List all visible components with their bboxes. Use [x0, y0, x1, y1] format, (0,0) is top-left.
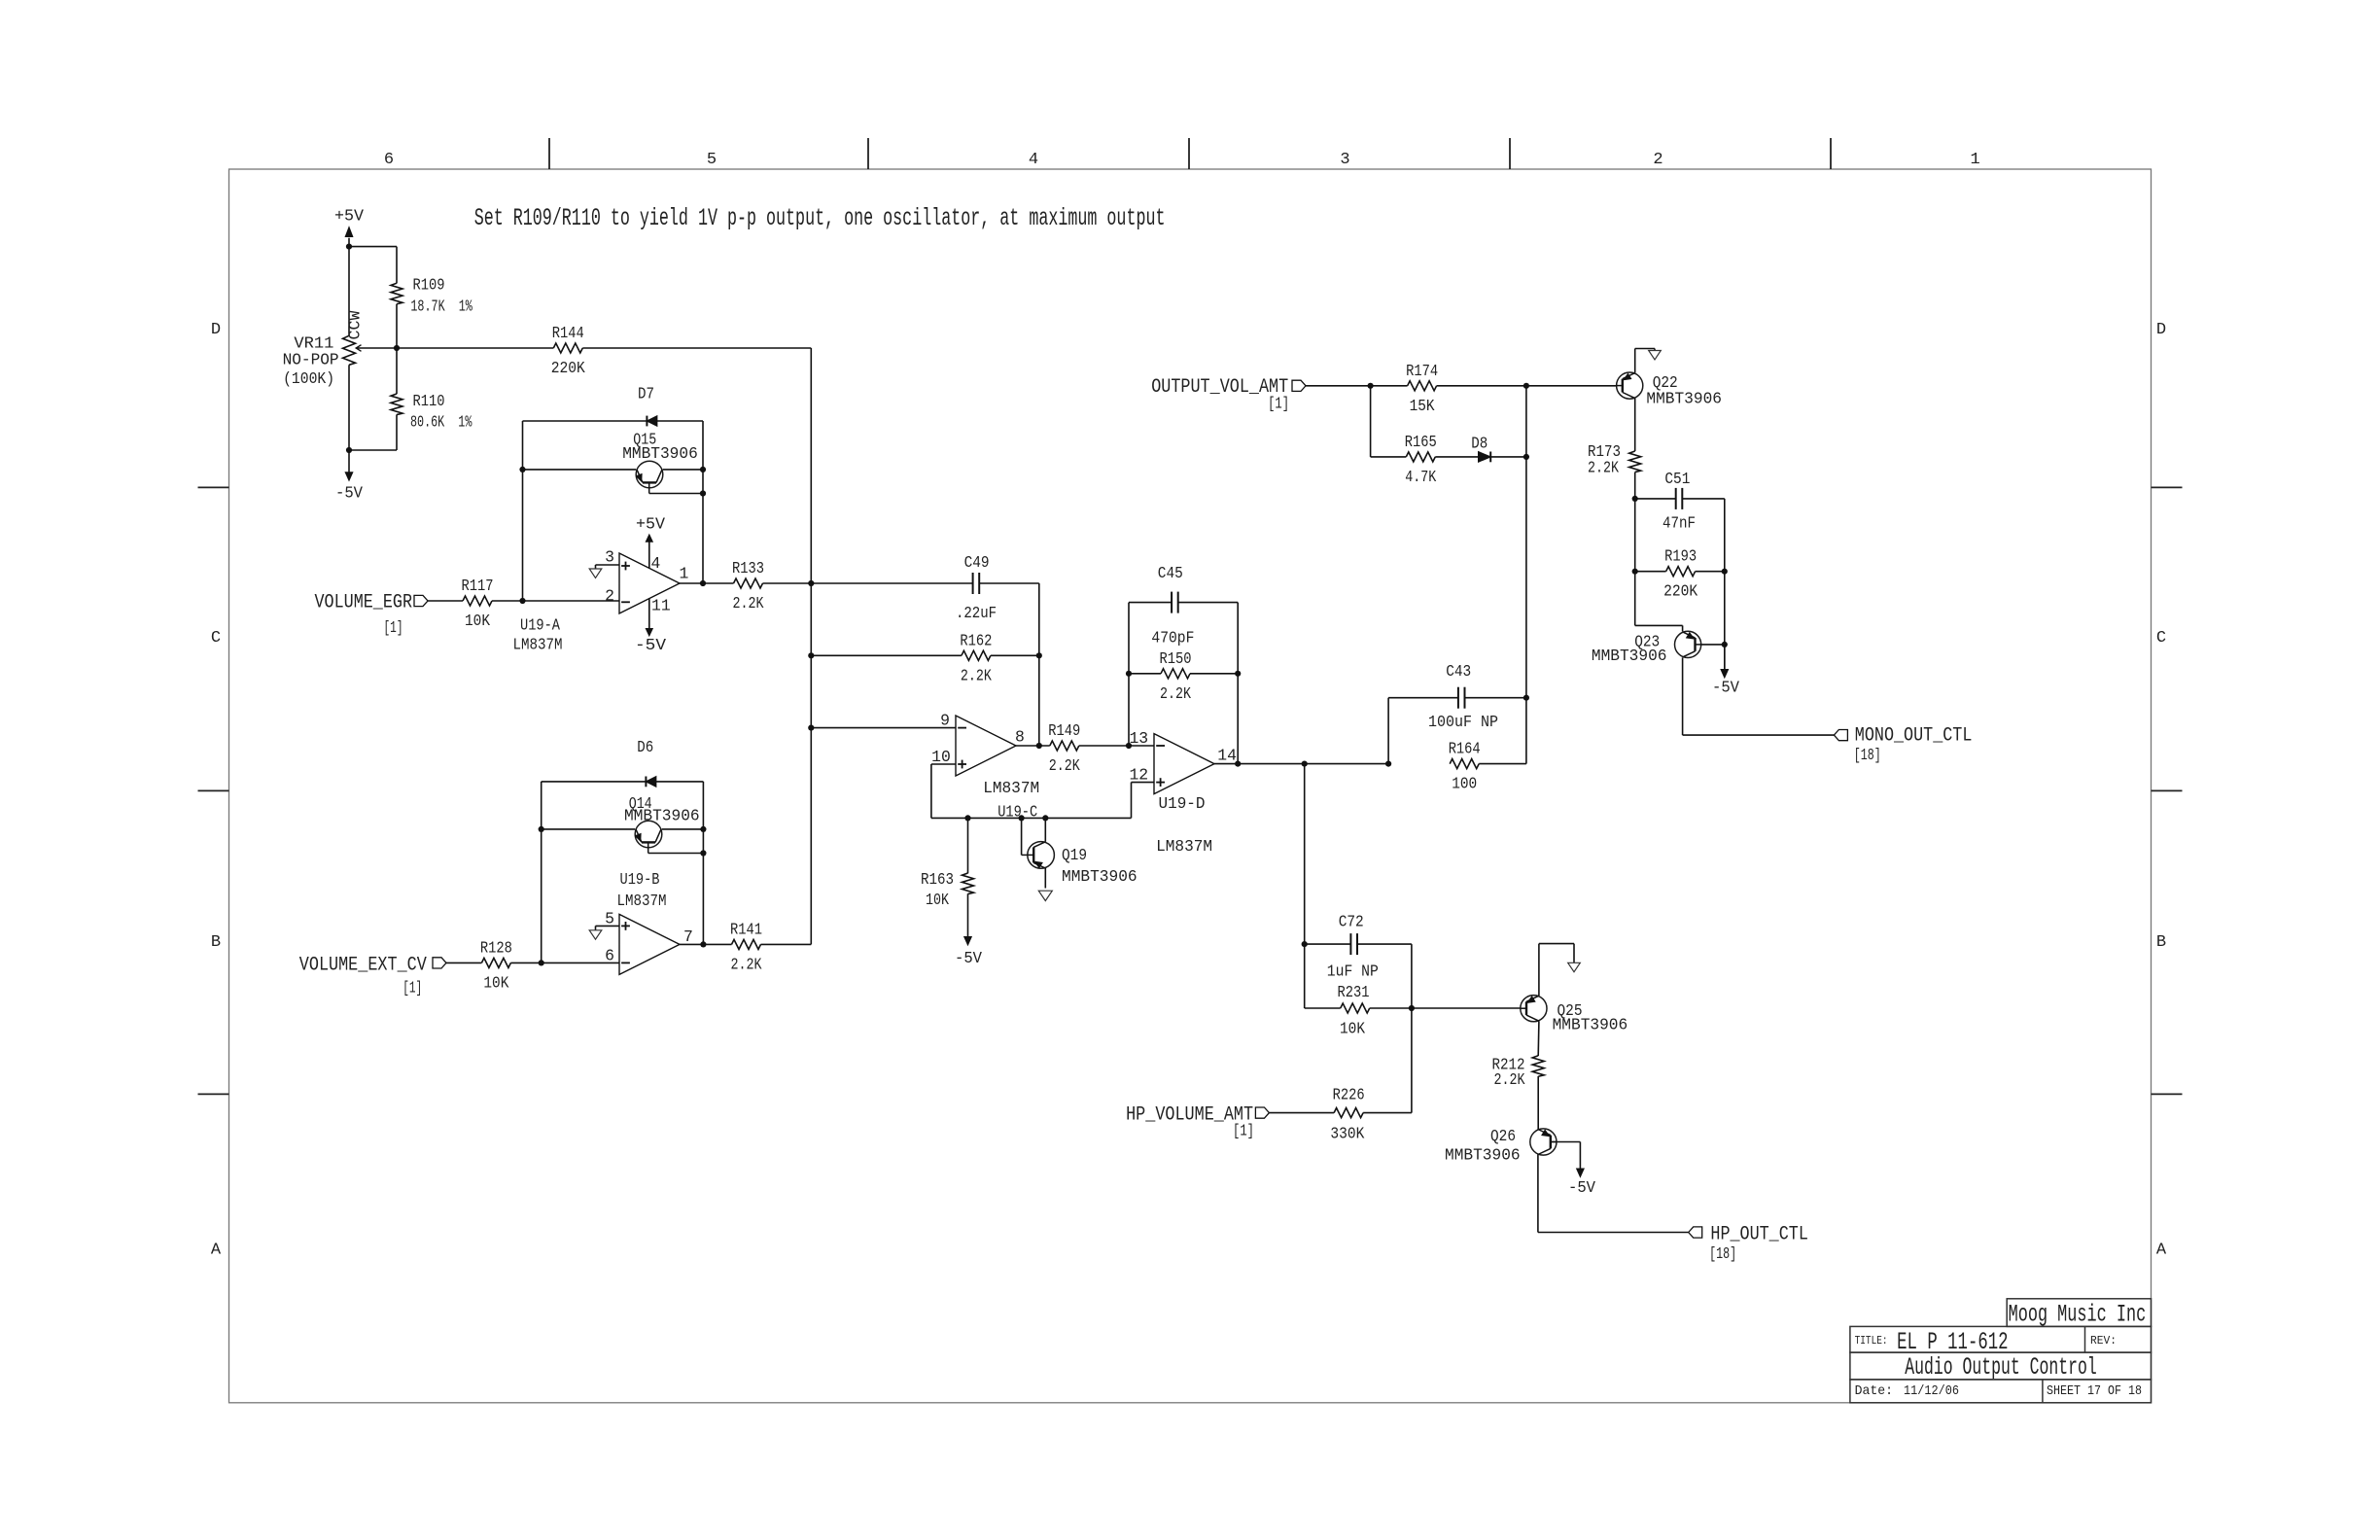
transistor Q14	[542, 828, 636, 830]
svg-text:330K: 330K	[1330, 1125, 1364, 1143]
ground pin3	[596, 564, 620, 566]
power -5V R163	[964, 937, 972, 946]
power -5V Q23	[1724, 645, 1726, 671]
svg-text:5: 5	[707, 151, 717, 169]
node	[1409, 1005, 1415, 1011]
diode D7	[523, 420, 647, 422]
wire	[1537, 1155, 1539, 1233]
svg-text:C72: C72	[1339, 913, 1364, 931]
svg-text:MMBT3906: MMBT3906	[1445, 1146, 1521, 1165]
power -5V	[348, 450, 350, 472]
svg-text:Date:: Date:	[1855, 1383, 1893, 1399]
svg-text:(100K): (100K)	[283, 369, 334, 388]
svg-text:2.2K: 2.2K	[1049, 756, 1080, 775]
svg-text:R162: R162	[960, 631, 992, 649]
node	[346, 447, 352, 453]
capacitor C45	[1171, 592, 1172, 613]
svg-text:[18]: [18]	[1854, 746, 1881, 764]
resistor R165	[1406, 452, 1435, 462]
ground pin5	[596, 925, 620, 927]
svg-text:4: 4	[651, 554, 661, 573]
svg-text:R165: R165	[1405, 433, 1437, 451]
title block	[2007, 1299, 2151, 1327]
svg-text:LM837M: LM837M	[1156, 837, 1212, 856]
node	[539, 826, 544, 832]
svg-text:2: 2	[605, 587, 614, 606]
svg-text:1uF NP: 1uF NP	[1327, 962, 1379, 981]
svg-text:10K: 10K	[465, 612, 490, 630]
node	[1523, 454, 1529, 460]
svg-text:R109: R109	[413, 276, 445, 295]
svg-text:14: 14	[1217, 746, 1237, 764]
wire feedback	[1128, 603, 1130, 746]
svg-text:2.2K: 2.2K	[1160, 684, 1191, 703]
node	[539, 960, 544, 965]
wire	[1306, 385, 1408, 387]
svg-text:Q19: Q19	[1062, 846, 1087, 864]
svg-text:R141: R141	[730, 920, 762, 938]
node pin8	[1036, 743, 1042, 749]
svg-text:1: 1	[680, 565, 689, 583]
svg-text:R231: R231	[1338, 983, 1370, 1001]
svg-text:10: 10	[931, 748, 951, 766]
wire	[446, 962, 481, 963]
svg-text:TITLE:: TITLE:	[1855, 1335, 1888, 1347]
wire bus	[810, 348, 812, 944]
svg-text:C43: C43	[1446, 662, 1471, 681]
svg-text:10K: 10K	[483, 973, 508, 992]
capacitor C72	[1305, 943, 1350, 945]
wire	[348, 365, 350, 450]
wire	[1682, 657, 1684, 735]
svg-text:[1]: [1]	[1268, 394, 1289, 412]
svg-text:B: B	[2156, 933, 2166, 952]
capacitor C43	[1387, 698, 1389, 764]
node	[1235, 761, 1241, 767]
svg-text:LM837M: LM837M	[983, 779, 1039, 797]
node	[1523, 695, 1529, 701]
svg-text:MONO_OUT_CTL: MONO_OUT_CTL	[1855, 725, 1973, 748]
diode D6	[542, 781, 647, 783]
svg-text:C: C	[2156, 629, 2166, 647]
svg-text:11/12/06: 11/12/06	[1904, 1383, 1959, 1399]
node pin13	[1126, 743, 1132, 749]
svg-text:C45: C45	[1158, 564, 1183, 582]
svg-text:R150: R150	[1160, 649, 1192, 668]
svg-text:7: 7	[683, 927, 693, 946]
svg-text:4: 4	[1029, 151, 1038, 169]
wire	[702, 782, 704, 945]
svg-text:1: 1	[1970, 151, 1979, 169]
svg-text:-5V: -5V	[335, 484, 363, 503]
svg-text:8: 8	[1015, 728, 1025, 747]
svg-text:D7: D7	[638, 385, 654, 403]
svg-text:U19-B: U19-B	[620, 870, 660, 889]
svg-text:R117: R117	[462, 577, 494, 595]
resistor R163	[967, 818, 969, 873]
svg-text:Set R109/R110 to yield 1V p-p: Set R109/R110 to yield 1V p-p output, on…	[474, 206, 1166, 232]
svg-text:MMBT3906: MMBT3906	[1592, 647, 1667, 665]
svg-text:13: 13	[1129, 729, 1148, 748]
svg-text:D8: D8	[1471, 434, 1487, 452]
node	[1632, 496, 1638, 502]
svg-text:R174: R174	[1406, 362, 1438, 380]
resistor R231	[1305, 1007, 1341, 1009]
wire	[1411, 944, 1413, 1113]
svg-text:R110: R110	[413, 392, 445, 410]
transistor Q15	[523, 469, 637, 471]
resistor R128	[481, 958, 510, 967]
wire	[349, 246, 397, 248]
wire	[428, 600, 463, 602]
svg-text:A: A	[211, 1242, 222, 1260]
svg-text:220K: 220K	[551, 359, 585, 377]
op-amp U19-C	[956, 716, 1016, 776]
capacitor C51	[1635, 498, 1676, 500]
svg-text:U19-A: U19-A	[520, 616, 560, 635]
node	[1523, 383, 1529, 389]
svg-text:R133: R133	[732, 559, 764, 577]
resistor R150	[1129, 673, 1161, 675]
svg-text:Q26: Q26	[1490, 1127, 1516, 1145]
capacitor C49	[811, 582, 972, 584]
svg-text:470pF: 470pF	[1151, 629, 1194, 647]
node	[394, 345, 400, 351]
svg-text:.22uF: .22uF	[956, 604, 997, 622]
svg-text:R144: R144	[552, 324, 584, 342]
svg-text:10K: 10K	[1340, 1020, 1365, 1038]
svg-text:3: 3	[605, 548, 614, 567]
svg-text:Audio Output Control: Audio Output Control	[1905, 1355, 2096, 1382]
resistor R174	[1408, 381, 1437, 391]
transistor Q23	[1675, 631, 1701, 657]
svg-text:2.2K: 2.2K	[733, 594, 764, 612]
svg-text:C49: C49	[964, 553, 990, 572]
node	[519, 598, 525, 604]
node	[964, 815, 970, 821]
wire right rail	[1525, 386, 1527, 698]
op-amp U19-D	[1154, 734, 1214, 794]
svg-text:-5V: -5V	[1568, 1178, 1595, 1197]
wire	[349, 449, 397, 451]
svg-text:LM837M: LM837M	[513, 636, 563, 654]
op-amp U19-B	[619, 914, 680, 974]
op-amp U19-A	[619, 553, 680, 613]
resistor R226	[1334, 1108, 1363, 1118]
resistor R117	[463, 596, 492, 606]
node	[1632, 569, 1638, 575]
svg-text:[1]: [1]	[1233, 1122, 1254, 1140]
wire	[1537, 1021, 1540, 1056]
svg-text:80.6K 1%: 80.6K 1%	[410, 413, 472, 432]
wire	[702, 421, 704, 583]
svg-text:D: D	[211, 321, 221, 339]
ground Q25	[1568, 962, 1581, 971]
svg-text:C51: C51	[1664, 470, 1690, 488]
net MONO_OUT_CTL	[1834, 730, 1847, 741]
svg-text:220K: 220K	[1663, 582, 1697, 601]
resistor R141	[680, 943, 732, 945]
svg-text:R128: R128	[480, 938, 512, 957]
power +5V pin4	[648, 542, 650, 568]
svg-text:U19-D: U19-D	[1159, 794, 1206, 813]
svg-text:-5V: -5V	[955, 949, 982, 967]
wire Q25 base	[1412, 1007, 1521, 1009]
power -5V Q26	[1579, 1142, 1581, 1171]
wire pin9	[811, 727, 956, 729]
svg-text:+5V: +5V	[636, 515, 665, 534]
wire	[1634, 399, 1636, 451]
svg-text:2: 2	[1653, 151, 1662, 169]
svg-text:6: 6	[605, 947, 614, 965]
svg-text:C: C	[211, 629, 221, 647]
wire	[1269, 1112, 1334, 1114]
wire	[1304, 764, 1306, 1008]
svg-text:REV:: REV:	[2090, 1335, 2117, 1347]
transistor Q26	[1530, 1129, 1557, 1155]
svg-text:[1]: [1]	[384, 618, 403, 637]
node	[808, 580, 814, 586]
node	[1368, 383, 1374, 389]
resistor R162	[811, 654, 962, 656]
net HP_OUT_CTL	[1689, 1227, 1702, 1238]
wire	[1038, 583, 1040, 746]
svg-text:11: 11	[651, 597, 671, 615]
svg-text:SHEET 17 OF 18: SHEET 17 OF 18	[2047, 1383, 2142, 1399]
svg-text:R226: R226	[1333, 1086, 1365, 1104]
svg-text:R163: R163	[921, 870, 954, 889]
node	[700, 580, 706, 586]
svg-text:D: D	[2156, 321, 2166, 339]
transistor Q22	[1617, 372, 1643, 399]
svg-text:MMBT3906: MMBT3906	[1646, 389, 1722, 407]
svg-text:6: 6	[384, 151, 394, 169]
wire pin10	[931, 763, 956, 765]
svg-text:MMBT3906: MMBT3906	[624, 807, 700, 825]
svg-text:NO-POP: NO-POP	[283, 351, 339, 369]
node	[519, 467, 525, 472]
svg-text:4.7K: 4.7K	[1405, 468, 1436, 486]
diode D8	[1489, 452, 1491, 463]
wire R165 branch	[1370, 386, 1372, 457]
transistor Q19	[1021, 818, 1023, 855]
svg-text:3: 3	[1340, 151, 1349, 169]
border frame	[229, 169, 2152, 1403]
node	[808, 725, 814, 731]
svg-text:VOLUME_EXT_CV: VOLUME_EXT_CV	[299, 954, 427, 976]
node	[1302, 941, 1308, 947]
svg-text:-5V: -5V	[635, 636, 666, 654]
wire	[1237, 603, 1239, 764]
wire	[1724, 499, 1726, 671]
svg-text:A: A	[2156, 1242, 2167, 1260]
ground Q22	[1649, 351, 1662, 360]
resistor R149	[1016, 745, 1050, 747]
svg-text:LM837M: LM837M	[617, 892, 667, 910]
svg-text:D6: D6	[637, 738, 653, 756]
svg-text:100: 100	[1452, 775, 1477, 793]
potentiometer VR11	[343, 335, 356, 365]
svg-text:100uF NP: 100uF NP	[1428, 713, 1498, 731]
wire output	[1214, 763, 1388, 765]
svg-text:2.2K: 2.2K	[961, 666, 992, 684]
transistor Q25	[1521, 996, 1547, 1022]
svg-text:18.7K 1%: 18.7K 1%	[410, 297, 472, 316]
svg-text:EL P 11-612: EL P 11-612	[1897, 1330, 2008, 1356]
svg-text:[1]: [1]	[402, 979, 422, 997]
svg-text:R164: R164	[1449, 740, 1481, 758]
resistor R212	[1532, 1056, 1544, 1077]
svg-text:12: 12	[1129, 766, 1148, 785]
wire	[523, 600, 620, 602]
svg-text:-5V: -5V	[1712, 679, 1739, 697]
node	[1126, 671, 1132, 677]
svg-text:MMBT3906: MMBT3906	[622, 444, 698, 463]
node	[346, 244, 352, 250]
svg-text:2.2K: 2.2K	[1588, 458, 1619, 476]
svg-text:2.2K: 2.2K	[731, 955, 762, 973]
svg-text:[18]: [18]	[1709, 1244, 1736, 1263]
resistor R173	[1629, 451, 1641, 472]
svg-text:HP_OUT_CTL: HP_OUT_CTL	[1710, 1224, 1808, 1246]
svg-text:MMBT3906: MMBT3906	[1062, 867, 1137, 886]
svg-text:+5V: +5V	[334, 207, 364, 226]
svg-text:R149: R149	[1048, 721, 1080, 740]
wire	[1634, 572, 1636, 626]
resistor R109	[396, 247, 398, 284]
svg-text:VOLUME_EGR: VOLUME_EGR	[315, 592, 413, 614]
svg-text:B: B	[211, 933, 221, 952]
power -5V pin11	[648, 599, 650, 629]
svg-text:2.2K: 2.2K	[1494, 1070, 1525, 1089]
resistor R193	[1634, 499, 1636, 572]
node	[808, 652, 814, 658]
resistor R164	[1450, 759, 1479, 769]
svg-text:47nF: 47nF	[1662, 514, 1696, 533]
svg-text:CCW: CCW	[346, 310, 365, 339]
svg-text:9: 9	[940, 712, 950, 730]
node	[700, 941, 706, 947]
svg-text:MMBT3906: MMBT3906	[1553, 1016, 1628, 1034]
resistor R110	[396, 348, 398, 394]
node	[1722, 642, 1728, 647]
svg-text:R193: R193	[1664, 547, 1697, 566]
svg-text:10K: 10K	[926, 891, 949, 909]
svg-text:15K: 15K	[1410, 397, 1435, 415]
wire	[542, 962, 619, 963]
resistor R133	[680, 582, 734, 584]
svg-text:Moog Music Inc: Moog Music Inc	[2009, 1303, 2147, 1329]
resistor R144	[397, 347, 553, 349]
ground Q19	[1038, 891, 1052, 900]
